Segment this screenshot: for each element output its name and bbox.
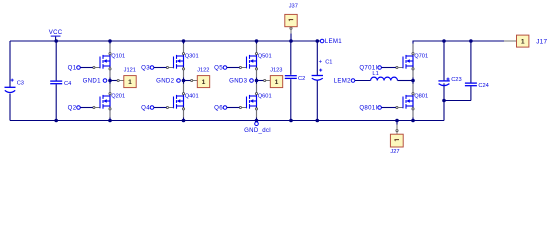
capacitor C2 [285, 41, 305, 121]
junction dots leg 2 [182, 39, 186, 43]
svg-text:GND1: GND1 [83, 78, 101, 85]
node Q3 (gate input terminal) [141, 65, 166, 72]
wire half-bridge leg 2 [183, 41, 185, 121]
svg-text:Q801I: Q801I [359, 105, 377, 112]
node Q2 (gate input terminal) [68, 105, 93, 112]
junction dots top bus [54, 39, 58, 43]
node Q701I (gate input terminal) [359, 65, 395, 72]
node Q6 (gate input terminal) [214, 105, 239, 112]
svg-text:GND3: GND3 [229, 78, 247, 85]
connector J27 (test point) [390, 121, 403, 156]
node LEM2 (return terminal) [334, 78, 355, 85]
svg-text:C1: C1 [325, 59, 332, 65]
node GND2 (phase mid terminal) [156, 78, 180, 85]
svg-text:Q5: Q5 [214, 65, 223, 72]
svg-text:J121: J121 [124, 67, 136, 73]
svg-text:J17: J17 [536, 38, 547, 45]
transistor Q401 [166, 84, 184, 118]
svg-text:Q401: Q401 [185, 94, 199, 100]
svg-text:J37: J37 [289, 4, 298, 10]
svg-text:Q701I: Q701I [359, 65, 377, 72]
svg-text:C3: C3 [17, 81, 24, 87]
svg-text:GND2: GND2 [156, 78, 174, 85]
connector J123 [257, 67, 283, 87]
svg-text:C23: C23 [451, 77, 461, 83]
connector J37 (test point) [285, 4, 298, 41]
power port VCC [49, 29, 63, 41]
svg-text:Q301: Q301 [185, 54, 199, 60]
connector J122 [184, 67, 210, 87]
transistor Q101 [93, 44, 111, 78]
wire VCC top bus [10, 40, 320, 42]
svg-text:1: 1 [275, 79, 279, 86]
transistor Q201 [93, 84, 111, 118]
node Q4 (gate input terminal) [141, 105, 166, 112]
junction dots bottom bus [54, 119, 58, 123]
connector J121 [110, 67, 136, 87]
wire LEM2 to L1 [355, 80, 371, 82]
svg-text:Q801: Q801 [414, 94, 428, 100]
svg-text:Q6: Q6 [214, 105, 223, 112]
junction dots leg 1 [108, 39, 112, 43]
node GND_dcl (ground terminal) [244, 122, 271, 134]
svg-text:1: 1 [128, 79, 132, 86]
svg-text:C4: C4 [64, 81, 71, 87]
svg-text:Q701: Q701 [414, 54, 428, 60]
node GND1 (phase mid terminal) [83, 78, 107, 85]
svg-text:Q4: Q4 [141, 105, 150, 112]
svg-text:1: 1 [202, 79, 206, 86]
transistor Q501 [239, 44, 257, 78]
svg-text:1: 1 [521, 39, 525, 46]
wire half-bridge leg 1 [109, 41, 111, 121]
capacitor C1 [312, 41, 333, 121]
wire L1 to phase leg [398, 80, 414, 82]
wire left rail (C3 branch) [9, 41, 11, 87]
svg-text:VCC: VCC [49, 29, 63, 36]
svg-text:+: + [319, 59, 323, 65]
transistor Q701 [396, 44, 414, 78]
svg-text:L1: L1 [372, 71, 378, 77]
transistor Q301 [166, 44, 184, 78]
svg-text:Q501: Q501 [258, 54, 272, 60]
wire output bus (phase to J17) [413, 41, 505, 43]
svg-text:Q3: Q3 [141, 65, 150, 72]
wire C23/C24 bottom link [444, 101, 471, 121]
junction dots leg 4 [411, 79, 415, 83]
svg-text:Q2: Q2 [68, 105, 77, 112]
svg-text:GND_dcl: GND_dcl [244, 127, 271, 134]
wire half-bridge leg 3 [256, 41, 258, 121]
junction dots leg 3 [255, 39, 259, 43]
svg-text:Q101: Q101 [111, 54, 125, 60]
capacitor C23 [438, 41, 461, 101]
svg-text:J122: J122 [197, 67, 209, 73]
junction dots right bus [442, 39, 446, 43]
svg-text:Q601: Q601 [258, 94, 272, 100]
node Q1 (gate input terminal) [68, 65, 93, 72]
svg-text:C2: C2 [298, 76, 305, 82]
svg-text:Q201: Q201 [111, 94, 125, 100]
svg-text:Q1: Q1 [68, 65, 77, 72]
node GND3 (phase mid terminal) [229, 78, 253, 85]
wire half-bridge leg 4 [412, 43, 414, 120]
node LEM1 (output terminal) [320, 38, 342, 45]
capacitor C24 [465, 41, 489, 101]
svg-text:C24: C24 [478, 83, 488, 89]
node Q801I (gate input terminal) [359, 105, 395, 112]
transistor Q601 [239, 84, 257, 118]
node Q5 (gate input terminal) [214, 65, 239, 72]
inductor L1 [371, 71, 398, 81]
connector J17 [504, 35, 548, 47]
svg-text:J123: J123 [270, 67, 282, 73]
transistor Q801 [396, 84, 414, 118]
svg-text:LEM1: LEM1 [325, 38, 342, 45]
capacitor C3 [5, 79, 24, 93]
svg-text:LEM2: LEM2 [334, 78, 351, 85]
wire bottom ground bus [10, 120, 444, 122]
capacitor C4 [50, 41, 71, 121]
svg-text:J27: J27 [390, 149, 399, 155]
